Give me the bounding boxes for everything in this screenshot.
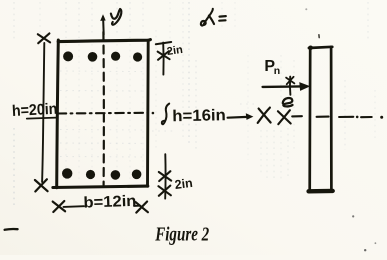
svg-text:Figure 2: Figure 2 xyxy=(154,223,209,245)
svg-text:b=12in: b=12in xyxy=(83,193,137,212)
svg-text:n: n xyxy=(274,65,280,77)
svg-text:h=16in: h=16in xyxy=(172,107,226,125)
svg-text:2in: 2in xyxy=(174,176,194,192)
svg-text:2in: 2in xyxy=(166,44,184,58)
svg-text:h=20in: h=20in xyxy=(12,101,58,120)
